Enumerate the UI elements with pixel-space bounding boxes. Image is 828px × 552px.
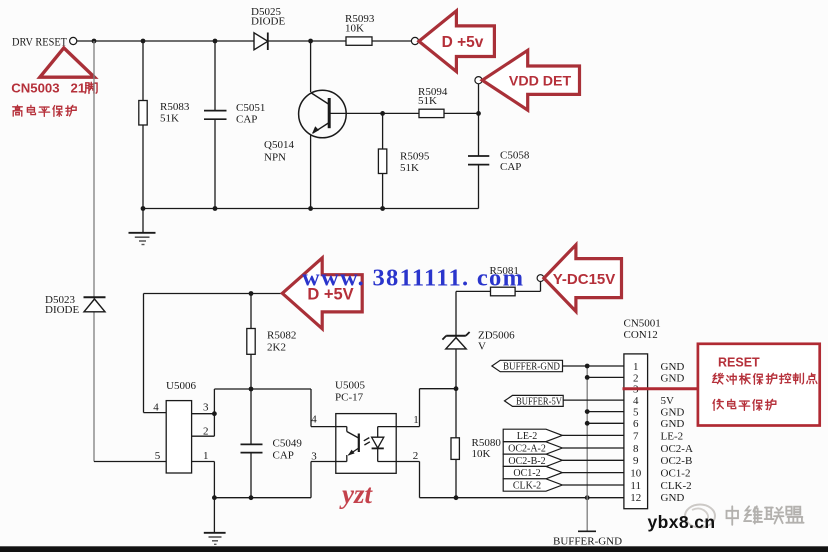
svg-text:C5051: C5051 (236, 102, 265, 114)
svg-text:GND: GND (661, 361, 685, 373)
resistor R5082 (250, 294, 252, 390)
svg-text:NPN: NPN (264, 152, 286, 164)
annotation triangle CN5003 (40, 48, 95, 77)
net label CLK-2 (503, 479, 562, 491)
wire u5006 top link (214, 388, 311, 390)
net label LE-2 (503, 429, 562, 441)
optocoupler U5005 (336, 414, 396, 474)
node junction br-2 (585, 495, 590, 500)
node junction bot-3 (308, 206, 313, 211)
watermark zhongwei-union (727, 506, 738, 524)
node junction top-1 (92, 39, 97, 44)
svg-text:2: 2 (203, 426, 209, 438)
svg-text:R5081: R5081 (490, 265, 519, 277)
wire row9 (562, 459, 624, 461)
wire row10 (562, 472, 624, 474)
svg-text:10K: 10K (345, 23, 364, 35)
svg-text:Y-DC15V: Y-DC15V (553, 271, 616, 288)
net flag arrow Y-DC15V (544, 245, 622, 312)
net label OC1-2 (503, 466, 562, 478)
svg-text:U5005: U5005 (335, 380, 365, 392)
net label OC2-B-2 (503, 454, 562, 466)
svg-text:U5006: U5006 (166, 380, 196, 392)
label buffer-board-protect-point (712, 373, 723, 384)
svg-text:CN5003: CN5003 (11, 81, 59, 96)
svg-text:11: 11 (630, 480, 641, 492)
svg-text:GND: GND (661, 407, 685, 419)
node bus-2 (585, 375, 590, 380)
node junction bot-1 (141, 206, 146, 211)
wire pin5 feed (94, 461, 166, 463)
terminal D +5v (411, 37, 418, 44)
node junction mid (249, 291, 254, 296)
svg-text:C5058: C5058 (500, 150, 530, 162)
resistor R5093 (346, 37, 372, 45)
svg-text:C5049: C5049 (273, 438, 303, 450)
wire row8 (562, 447, 624, 449)
svg-text:10: 10 (630, 468, 642, 480)
light coupling arrows (364, 438, 370, 441)
node junction vdd (476, 111, 481, 116)
svg-text:V: V (478, 341, 486, 353)
wire bottom rail (143, 208, 479, 210)
svg-text:7: 7 (633, 430, 639, 442)
watermark logo swirl (685, 505, 715, 528)
zener ZD5006 (455, 291, 457, 388)
node junction top-4 (308, 39, 313, 44)
net flag arrow VDD DET (482, 50, 579, 110)
transistor Q5014 (310, 41, 312, 92)
svg-text:PC-17: PC-17 (335, 392, 364, 404)
svg-text:CLK-2: CLK-2 (513, 481, 541, 492)
node junction bm-2 (249, 495, 254, 500)
svg-text:VDD DET: VDD DET (509, 73, 572, 89)
svg-text:4: 4 (153, 402, 159, 414)
terminal Y-DC15V (537, 275, 544, 282)
node bus-6 (585, 421, 590, 426)
wire row1 (563, 365, 624, 367)
svg-text:R5082: R5082 (267, 330, 296, 342)
net label OC2-A-2 (503, 442, 562, 454)
wire pin1 drop (192, 461, 215, 463)
svg-text:LE-2: LE-2 (661, 430, 684, 442)
svg-text:R5083: R5083 (160, 101, 190, 113)
IC U5006 (166, 401, 191, 473)
label high-level-protect (13, 105, 23, 116)
connector CN5001 CON12 (624, 354, 648, 509)
svg-text:GND: GND (661, 372, 685, 384)
wire row2 (587, 376, 624, 378)
svg-text:ybx8.cn: ybx8.cn (648, 512, 716, 532)
net label BUFFER-5V (505, 395, 564, 406)
svg-text:R5095: R5095 (400, 151, 430, 163)
svg-text:OC2-A-2: OC2-A-2 (508, 444, 546, 455)
capacitor C5051 (214, 41, 216, 111)
ground top section (142, 209, 144, 233)
svg-text:GND: GND (661, 492, 685, 504)
svg-text:51K: 51K (160, 113, 179, 125)
node bus-1 (585, 364, 590, 369)
wire zener link (420, 388, 457, 390)
svg-text:DRV RESET: DRV RESET (12, 37, 67, 49)
net flag arrow D +5V mid (282, 258, 362, 329)
svg-text:GND: GND (661, 418, 685, 430)
capacitor C5049 (250, 389, 252, 444)
node junction base (380, 111, 385, 116)
svg-text:5: 5 (155, 450, 161, 462)
svg-text:1: 1 (203, 450, 209, 462)
svg-text:OC2-B: OC2-B (661, 455, 693, 467)
wire row6 (587, 422, 624, 424)
svg-text:LE-2: LE-2 (517, 431, 538, 442)
wire bottom right rail (420, 497, 624, 499)
resistor R5095 (382, 113, 384, 208)
svg-text:2K2: 2K2 (267, 342, 286, 354)
svg-text:3: 3 (311, 451, 317, 463)
wire row5 (587, 411, 624, 413)
bottom black bar (0, 546, 828, 552)
diode D5023 (84, 296, 106, 298)
LED inside U5005 (372, 437, 384, 448)
svg-text:OC1-2: OC1-2 (661, 468, 691, 480)
node junction bot-4 (380, 206, 385, 211)
resistor R5083 (142, 41, 144, 209)
svg-text:4: 4 (633, 395, 639, 407)
annotation red line pin3 (623, 387, 698, 390)
resistor R5081 (456, 290, 491, 292)
phototransistor inside U5005 (336, 426, 347, 428)
svg-text:1: 1 (413, 414, 419, 426)
svg-text:6: 6 (633, 418, 639, 430)
svg-text:CAP: CAP (273, 450, 294, 462)
svg-text:OC2-B-2: OC2-B-2 (508, 456, 545, 467)
svg-text:BUFFER-GND: BUFFER-GND (503, 362, 560, 373)
svg-text:CAP: CAP (500, 161, 521, 173)
wire row7 (562, 434, 624, 436)
svg-text:CN5001: CN5001 (624, 318, 661, 330)
svg-text:CLK-2: CLK-2 (661, 480, 692, 492)
svg-text:1: 1 (633, 361, 639, 373)
wire pin1 right (378, 426, 420, 428)
svg-text:DIODE: DIODE (45, 304, 79, 316)
svg-text:DIODE: DIODE (251, 16, 285, 28)
svg-text:RESET: RESET (718, 356, 760, 370)
diode D5025 (254, 33, 268, 50)
svg-text:2: 2 (633, 372, 639, 384)
svg-text:5: 5 (633, 407, 639, 419)
svg-text:5V: 5V (661, 395, 675, 407)
wire row11 (562, 484, 624, 486)
node junction top-2 (141, 39, 146, 44)
node junction bot-2 (213, 206, 218, 211)
wire pin2 right (378, 461, 420, 463)
node bus-5 (585, 409, 590, 414)
svg-text:Q5014: Q5014 (264, 139, 294, 151)
wire bottom mid rail (214, 497, 311, 499)
node junction top-3 (213, 39, 218, 44)
ground mid section (213, 498, 215, 533)
capacitor C5058 (478, 113, 480, 156)
node junction zener (454, 386, 459, 391)
node junction r5082 (249, 387, 254, 392)
svg-text:CON12: CON12 (624, 329, 658, 341)
svg-text:51K: 51K (400, 162, 419, 174)
svg-text:BUFFER-GND: BUFFER-GND (553, 536, 622, 548)
wire row4 (563, 399, 624, 401)
svg-text:12: 12 (630, 492, 641, 504)
net flag arrow D +5v (419, 11, 495, 72)
svg-text:yzt: yzt (339, 479, 373, 509)
svg-text:8: 8 (633, 443, 639, 455)
svg-text:3: 3 (203, 402, 209, 414)
node junction pin3 (212, 411, 217, 416)
svg-text:51K: 51K (418, 95, 437, 107)
label low-level-protect (713, 399, 723, 410)
annotation RESET box (698, 344, 820, 426)
svg-text:OC2-A: OC2-A (661, 443, 693, 455)
svg-text:4: 4 (311, 414, 317, 426)
resistor R5080 (455, 389, 457, 498)
node junction br-1 (454, 495, 459, 500)
svg-text:OC1-2: OC1-2 (513, 468, 540, 479)
node junction bm-1 (212, 495, 217, 500)
svg-text:21: 21 (71, 81, 86, 96)
svg-text:BUFFER-5V: BUFFER-5V (516, 397, 563, 408)
svg-text:2: 2 (413, 450, 419, 462)
wire mid rail (144, 293, 282, 295)
wire left drop (93, 41, 95, 462)
gnd bus terminal (578, 530, 596, 532)
terminal VDD DET (478, 84, 480, 114)
svg-text:D +5v: D +5v (442, 34, 484, 51)
svg-text:9: 9 (633, 455, 639, 467)
resistor R5094 (419, 109, 444, 117)
wire top rail (77, 40, 412, 42)
svg-text:CAP: CAP (236, 114, 257, 126)
svg-text:10K: 10K (472, 448, 491, 460)
wire gnd bus (586, 366, 588, 531)
net label BUFFER-GND (492, 360, 563, 371)
wire base rail (329, 112, 478, 114)
